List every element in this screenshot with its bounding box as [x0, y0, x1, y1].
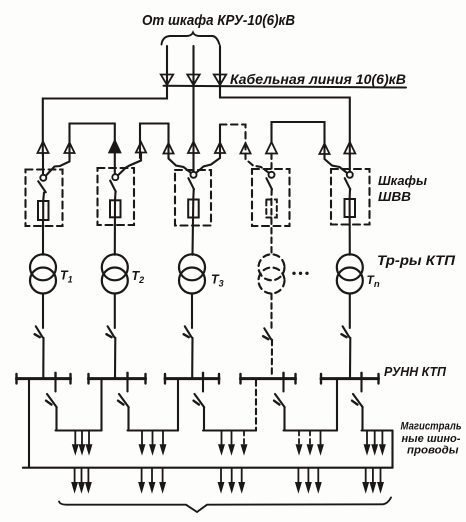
wire: switch to fuse cabinet3 [192, 189, 194, 199]
svg-text:Магистраль: Магистраль [401, 421, 462, 433]
breaker lower feeder 5 [353, 394, 363, 407]
wire: bus5 right feeder stub [360, 380, 362, 391]
LV bus 1 (РУНН) [17, 377, 71, 380]
wire: bus4 right feeder stub [282, 380, 284, 391]
fuse cabinet3 [188, 200, 199, 218]
LV bus 3 [165, 377, 219, 380]
switch blade cabinet5 [345, 178, 351, 189]
cabinet ШВВ 4 dashed enclosure (future) [252, 169, 290, 226]
wire: long distribution line [23, 467, 393, 469]
cable termination arrow cabinet3 right [215, 143, 225, 154]
svg-text:Т3: Т3 [211, 273, 224, 289]
wire: dashed breaker to bus 4 [271, 340, 273, 378]
wire: bus1 left feeder down to distribution line [28, 380, 30, 467]
wire: T2 to breaker [114, 294, 116, 328]
busduct tap arrows group 4 (two dashed) [298, 431, 300, 447]
cabinet ШВВ 3 dashed enclosure [175, 170, 211, 226]
svg-text:Тn: Тn [367, 273, 380, 290]
wire: bus3 right feeder stub [202, 380, 204, 391]
LV bus 4 [241, 377, 296, 380]
wire: bar5 end down to distribution line [391, 431, 393, 468]
wire: incoming feeder 3 [219, 46, 221, 85]
wire: jumper cabinet2 exit to cabinet3 left [140, 124, 169, 159]
wire: breaker to bus 2 [114, 338, 116, 378]
breaker QF4 upper [264, 328, 271, 339]
LV bus 5 [321, 377, 379, 380]
brace over incoming feeders [162, 33, 220, 45]
transformer T3 [179, 254, 205, 280]
cable termination arrow cabinet4 left [240, 143, 250, 154]
breaker QF3 upper [185, 326, 192, 337]
switch blade cabinet4 [266, 178, 272, 189]
wire: incoming feeder 2 [192, 46, 194, 85]
wire: right trunk elbow to cabinet 5 [220, 87, 350, 155]
cable arrow incoming 3 [214, 75, 226, 86]
wire: switch to fuse cabinet5 [349, 189, 351, 199]
busduct bar 5 [362, 429, 393, 431]
busduct lower arrows group 3 [220, 468, 222, 484]
wire: feeder5 to bar [361, 407, 363, 430]
wire: cabinet3 right zigzag into switch [197, 153, 221, 173]
switch hinge cabinet1 [40, 175, 46, 181]
wire: feeder2 to bar [127, 407, 129, 430]
wire: bus2 right feeder stub [126, 380, 128, 391]
cabinet ШВВ 2 dashed enclosure [98, 168, 135, 225]
wire: cabinet2 exit zigzag into switch [118, 153, 141, 176]
svg-text:проводы: проводы [407, 445, 459, 457]
wire: left trunk elbow [43, 86, 167, 155]
cable termination arrow cabinet5 main [344, 142, 355, 154]
wire: bus1 right feeder stub [54, 380, 56, 391]
wire: through fuse and down to T3 [191, 200, 194, 255]
busduct lower arrows group 4 [297, 468, 299, 484]
transformer Tn [337, 254, 363, 280]
wire: cabinet1 main into switch [42, 153, 44, 175]
svg-text:Кабельная линия 10(6)кВ: Кабельная линия 10(6)кВ [230, 71, 406, 87]
wire: dashed jumper cabinet3 right to cabinet4 (future) [219, 125, 221, 156]
wire: through fuse cabinet1 [42, 201, 44, 220]
transformer T1 [30, 254, 56, 280]
wire: center feeder down to cabinet 3 [192, 87, 194, 155]
busduct bar 2 [128, 429, 179, 431]
wire: dashed cabinet4 main into switch [270, 154, 272, 172]
wire: fuse to transformer T1 [42, 220, 44, 255]
wire: cabinet5 left zigzag into switch [325, 154, 347, 173]
busduct bar 1 [56, 429, 102, 431]
wire: bus3 left feeder [177, 380, 179, 430]
svg-text:От шкафа КРУ-10(6)кВ: От шкафа КРУ-10(6)кВ [142, 13, 295, 29]
svg-text:Т1: Т1 [60, 269, 73, 285]
cable termination arrow cabinet3 left [163, 143, 173, 154]
cabinet ШВВ 5 dashed enclosure [331, 169, 370, 225]
wire: switch to fuse cabinet2 [114, 192, 117, 201]
breaker lower feeder 2 [119, 394, 129, 407]
breaker QF5 upper [343, 326, 350, 337]
switch blade cabinet3 [188, 178, 194, 189]
wire: T5 to breaker [349, 294, 351, 328]
transformer T2 [102, 254, 128, 280]
wire: switch to fuse cabinet1 [42, 193, 45, 202]
wire: cabinet3 main into switch [192, 153, 194, 172]
svg-text:РУНН КТП: РУНН КТП [384, 364, 447, 379]
wire: T1 to breaker [42, 294, 44, 328]
busduct lower arrows group 2 [141, 468, 143, 484]
wire: cabinet1 exit zigzag into switch [47, 153, 70, 176]
busduct tap arrows group 5 [366, 431, 368, 447]
wire: feeder1 to bar [55, 407, 57, 430]
svg-text:Шкафы: Шкафы [378, 173, 427, 188]
wire: breaker to bus 1 [42, 338, 44, 378]
fuse cabinet1 [38, 201, 49, 220]
cable termination arrow cabinet3 main [188, 142, 199, 154]
wire: incoming feeder 1 [166, 46, 168, 85]
cable termination arrow cabinet1 exit [64, 143, 74, 154]
wire: dashed bus4 left feeder [255, 380, 257, 430]
wire: jumper cabinet1 exit to cabinet2 [70, 124, 115, 158]
svg-text:ные шино-: ные шино- [402, 433, 461, 445]
switch blade cabinet1 [38, 181, 46, 192]
breaker lower feeder 3 [195, 394, 205, 407]
wire: bus2 left feeder [100, 380, 102, 430]
svg-text:ШВВ: ШВВ [378, 189, 411, 204]
busduct bar 4 [284, 429, 338, 431]
wire: dashed cabinet4 left zigzag into switch [246, 154, 269, 173]
fuse cabinet4 dashed [266, 200, 277, 218]
switch blade cabinet2 [110, 181, 116, 192]
wire: cabinet3 left zigzag into switch [169, 154, 191, 173]
breaker QF1 upper [36, 326, 43, 337]
cable arrow incoming 2 [187, 75, 199, 86]
fuse cabinet5 [345, 199, 356, 217]
transformer T4 dashed (future) [259, 254, 285, 280]
busduct tap arrows group 1 [74, 431, 76, 447]
wire: through fuse down to T5 [349, 199, 351, 255]
wire: bus5 left feeder [336, 380, 338, 430]
switch hinge cabinet5 [347, 172, 353, 178]
cable termination arrow cabinet2 exit [136, 142, 146, 153]
busduct tap arrows group 2 [141, 431, 143, 447]
wire: breaker to bus 5 [349, 338, 351, 378]
switch hinge cabinet4 (dashed branch) [269, 172, 275, 178]
breaker QF2 upper [108, 326, 115, 337]
svg-text:Т2: Т2 [132, 269, 145, 285]
wire: feeder3 to bar [203, 407, 205, 430]
cable termination arrow cabinet1 main [38, 142, 49, 154]
wire: 10kV bus / label underline [164, 86, 407, 88]
wire: T3 to breaker [191, 294, 193, 328]
cable arrow incoming 1 [161, 75, 173, 86]
breaker lower feeder 4 [275, 394, 285, 407]
switch hinge cabinet3 [191, 172, 197, 178]
wire: dashed T4 to breaker [270, 294, 272, 329]
busduct lower arrows group 5 [365, 468, 367, 484]
cabinet ШВВ 1 dashed enclosure [26, 170, 63, 227]
switch hinge cabinet2 [112, 174, 118, 180]
ellipsis dots after T4 [292, 272, 295, 275]
cable termination arrow cabinet2 main (filled) [109, 141, 120, 153]
wire: through fuse and down to T2 [114, 200, 116, 255]
cable termination arrow cabinet4 main [266, 142, 277, 154]
wire: cabinet5 main into switch [349, 154, 351, 172]
wire: feeder4 to bar [283, 407, 285, 430]
LV bus 2 [89, 377, 146, 380]
wire: dashed switch to fuse cabinet4 [270, 189, 272, 199]
wire: breaker to bus 3 [191, 338, 193, 378]
bottom brace [59, 498, 391, 513]
wire: dashed through fuse down to T4 [270, 200, 272, 255]
busduct bar 3 [203, 429, 256, 431]
wire: cabinet2 main into switch [114, 153, 116, 175]
busduct lower arrows group 1 [74, 468, 76, 484]
breaker lower feeder 1 [47, 394, 57, 407]
svg-text:Тр-ры КТП: Тр-ры КТП [377, 252, 456, 268]
cable termination arrow cabinet5 left [319, 144, 329, 155]
busduct tap arrows group 3 (third dashed) [221, 431, 223, 447]
fuse cabinet2 [110, 200, 121, 217]
wire: jumper cabinet4 to cabinet5 left [272, 122, 325, 156]
